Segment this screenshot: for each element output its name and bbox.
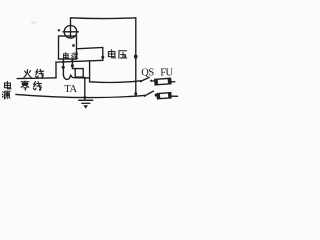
meter terminal box <box>59 36 77 59</box>
node ground branch <box>84 77 86 79</box>
node ground-neutral crossing <box>83 96 86 99</box>
label 电流 (current) <box>63 53 68 59</box>
node TA lead 2 terminal <box>71 64 74 67</box>
node voltage tap <box>101 56 104 59</box>
svg-text:FU: FU <box>160 68 173 79</box>
label 火线 (live wire) <box>24 70 31 78</box>
switch QS top pole <box>140 80 142 82</box>
node on right vertical <box>134 55 138 59</box>
TA secondary loop arc <box>63 75 89 80</box>
wire top voltage-coil link <box>71 18 136 94</box>
TA core loop <box>75 69 83 78</box>
wire voltage tap from box <box>77 48 103 61</box>
wire live line left <box>17 77 56 80</box>
wire ground lead <box>84 78 86 100</box>
wire live-left riser <box>55 62 57 78</box>
node TA lead 2 crossing <box>71 60 73 62</box>
switch QS bottom pole <box>144 95 146 97</box>
svg-text:TA: TA <box>64 84 77 95</box>
wire live line right <box>90 81 141 83</box>
wire live bypass line A <box>56 60 103 62</box>
current transformer TA lead 1 <box>62 59 64 75</box>
ground symbol <box>79 99 93 101</box>
label 零线 (neutral wire) <box>21 81 29 90</box>
label 电压 (voltage) <box>108 50 115 58</box>
node TA lead 1 crossing <box>62 61 65 64</box>
node TA lead 1 terminal <box>62 66 65 69</box>
polarity dot left of meter <box>58 29 60 31</box>
current transformer TA lead 2 <box>72 59 75 69</box>
fuse FU top <box>151 80 174 83</box>
wire neutral line <box>16 94 144 97</box>
wire live riser right <box>89 61 91 82</box>
node neutral / right vertical junction <box>134 92 137 96</box>
terminal dot inside box <box>72 44 74 46</box>
kWh meter M (circle with cross) <box>64 26 77 39</box>
svg-text:QS: QS <box>141 68 154 79</box>
fuse FU bottom <box>156 95 178 98</box>
label 电源 (power source), vertical <box>4 81 11 88</box>
